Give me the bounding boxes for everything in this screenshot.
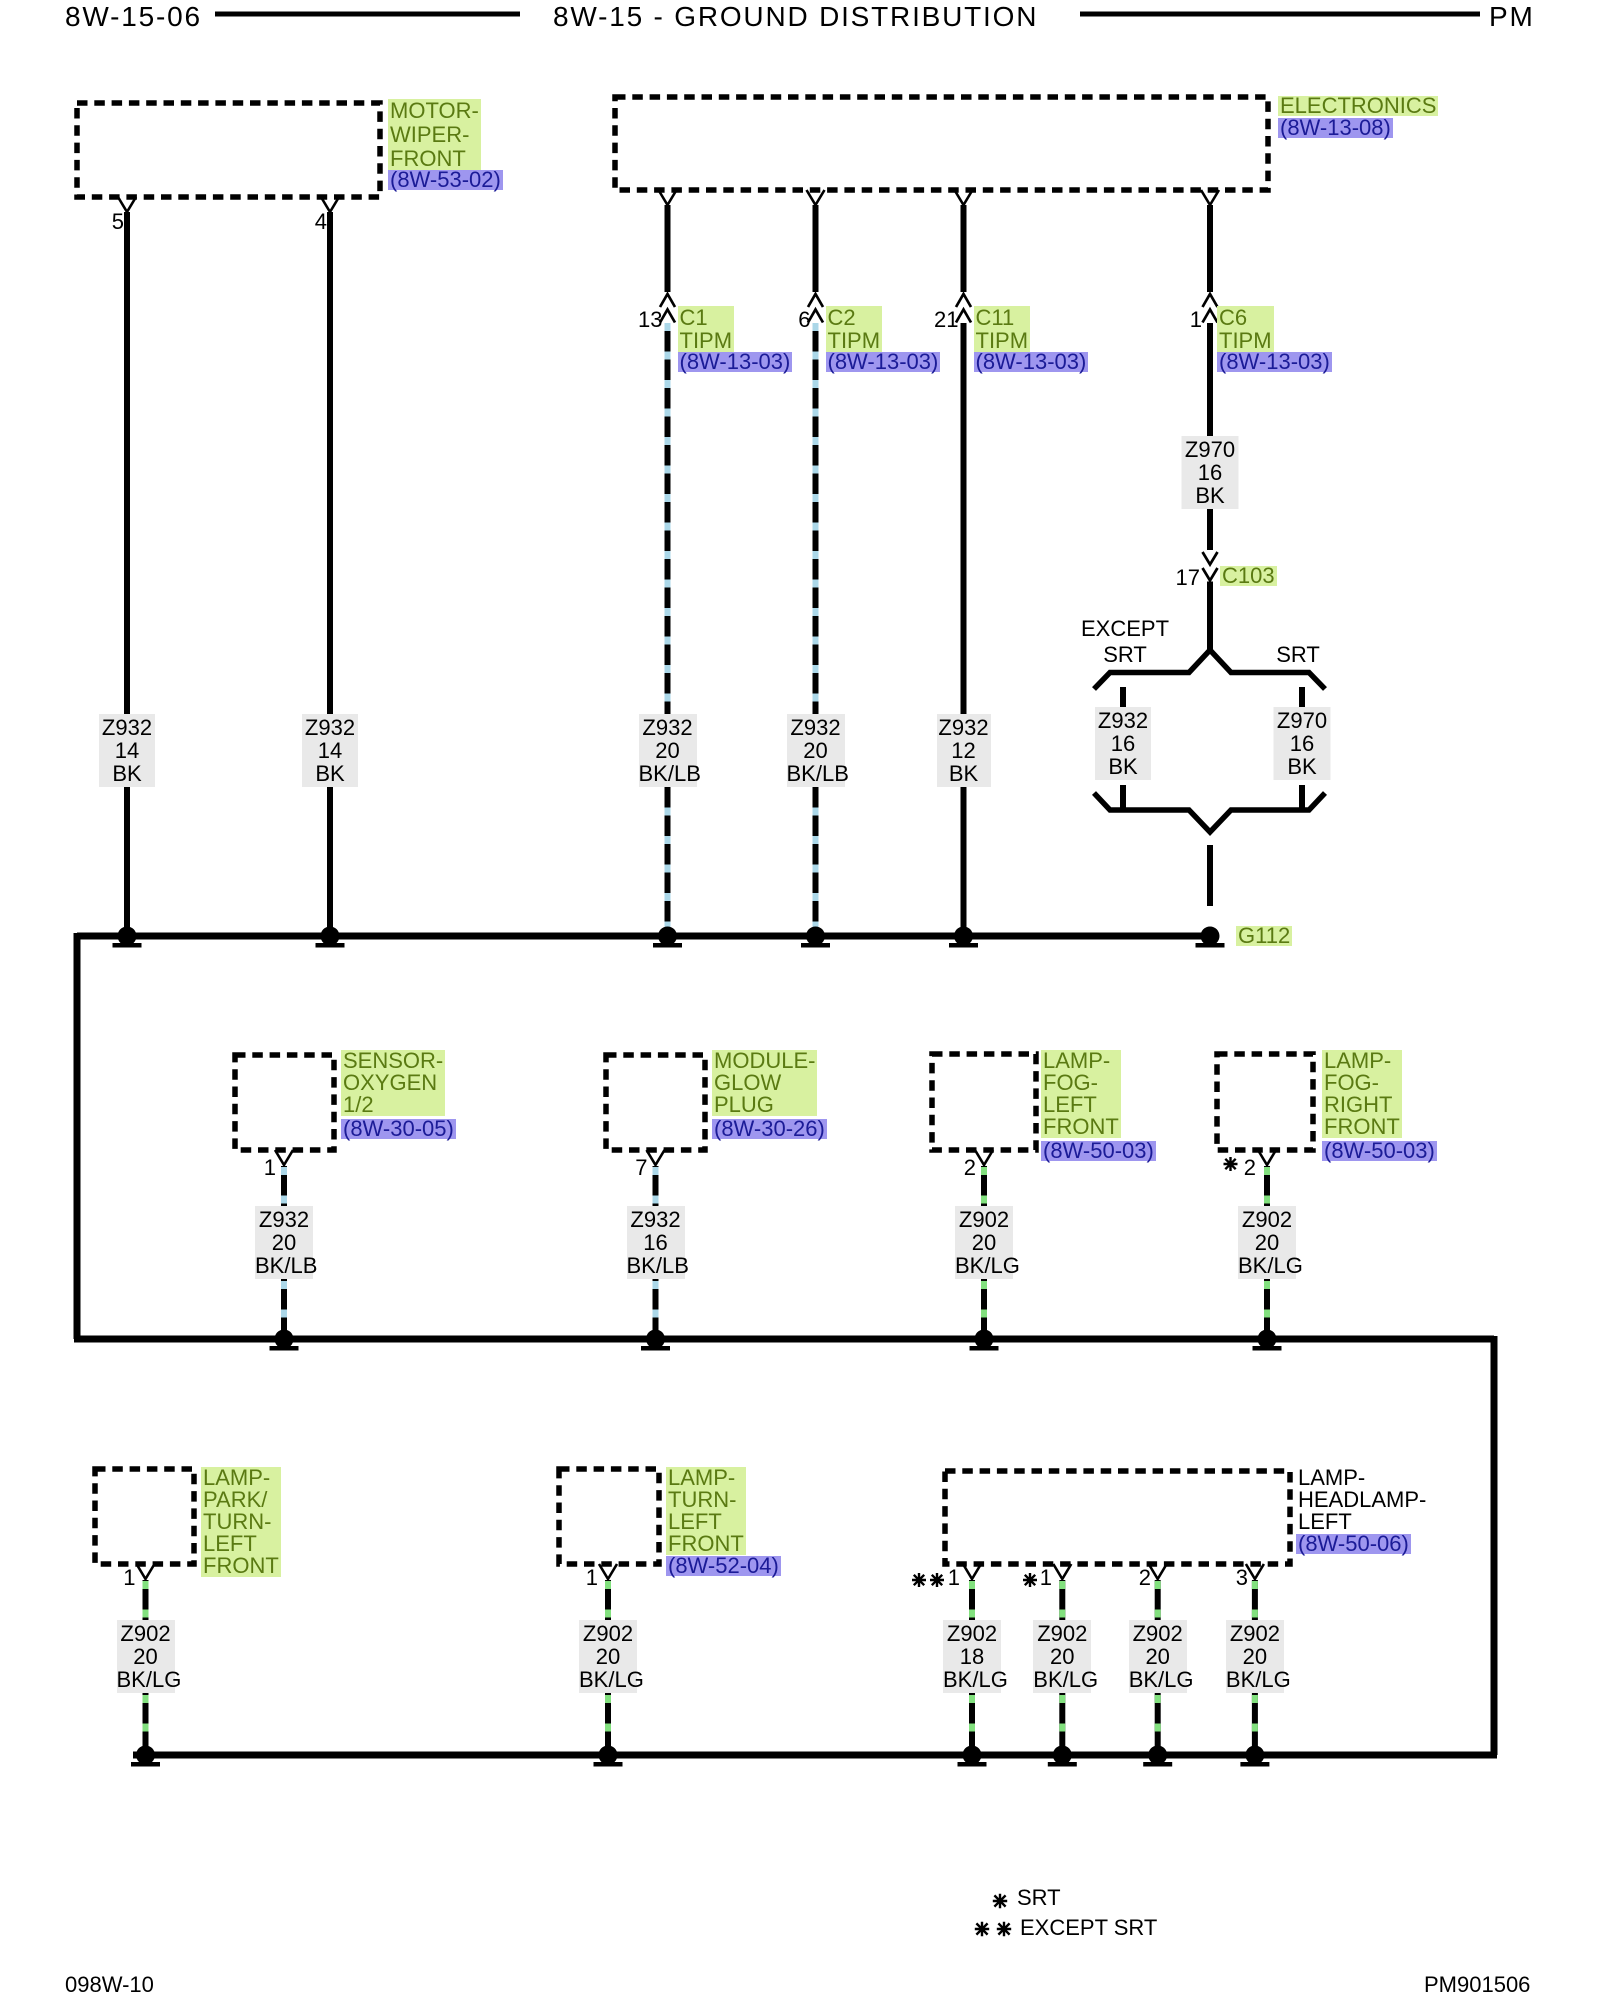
- junction dot on bus 3 at x=145.5: [131, 1746, 160, 1767]
- pin number 5: [99, 210, 124, 234]
- component box MOTOR-WIPER-FRONT: [77, 103, 380, 197]
- label SENSOR-OXYGEN 1/2: [341, 1050, 445, 1116]
- label LAMP-TURN-LEFT FRONT: [666, 1467, 746, 1555]
- label C6 TIPM: [1217, 306, 1274, 352]
- pin number 2 LAMP-FOG-RIGHT (starred): [1242, 1156, 1256, 1180]
- wire label at x=284: [255, 1206, 313, 1279]
- light-blue tracer ticks on wire C2: [813, 323, 819, 930]
- asterisk marker for pin 2 LAMP-FOG-RIGHT FRONT: [1224, 1157, 1238, 1171]
- component box LAMP-PARK/TURN-LEFT FRONT: [95, 1469, 194, 1564]
- wire Z970 16 BK from C6 to C103: [1207, 323, 1213, 550]
- pin number 17 at C103: [1166, 566, 1200, 590]
- header rule left: [215, 12, 520, 17]
- junction dot on bus 3 at x=972: [958, 1746, 987, 1767]
- light-blue tracer ticks on wire C1: [665, 323, 671, 930]
- wire label at x=655.5: [627, 1206, 685, 1279]
- tracer ticks on wire at x=972: [969, 1581, 975, 1750]
- junction dot on G112 bus at x=1210: [1196, 927, 1225, 948]
- wire from ELECTRONICS to connector C11: [961, 205, 967, 292]
- SRT option split brace (top): [1094, 650, 1325, 689]
- option label SRT: [1276, 642, 1320, 668]
- label MOTOR-WIPER-FRONT: [388, 99, 481, 171]
- component box LAMP-HEADLAMP-LEFT: [945, 1471, 1290, 1564]
- wire label at x=1267: [1238, 1206, 1296, 1279]
- junction dot on G112 bus at x=127: [113, 927, 142, 948]
- footer code PM901506: [1424, 1973, 1530, 1997]
- wire label at x=815.5: [787, 714, 845, 787]
- junction dot on bus 3 at x=1062.3: [1048, 1746, 1077, 1767]
- reference label (8W-50-03) left fog: [1041, 1141, 1156, 1161]
- junction dot on bus 2 at x=655.5: [641, 1330, 670, 1351]
- header text 8W-15-06: [65, 2, 202, 32]
- pin number 1 SENSOR-OXYGEN: [251, 1156, 276, 1180]
- pin number 6 at connector C2: [786, 308, 811, 332]
- connector V pin 5 MOTOR-WIPER-FRONT: [118, 197, 136, 212]
- reference label (8W-50-06): [1296, 1534, 1411, 1554]
- wire Z902 20 BK/LG from LAMP-HEADLAMP-LEFT pin 3 to bus 3: [1252, 1580, 1258, 1755]
- pin number 7 MODULE-GLOW PLUG: [623, 1156, 648, 1180]
- header title 8W-15 - GROUND DISTRIBUTION: [553, 2, 1038, 32]
- wire Z902 20 BK/LG from LAMP-PARK/TURN-LEFT FRONT pin 1 to bus 3: [143, 1580, 149, 1755]
- junction dot on bus 2 at x=1267: [1253, 1330, 1282, 1351]
- footnote double asterisk EXCEPT SRT: [975, 1922, 989, 1936]
- label MODULE-GLOW PLUG: [712, 1050, 817, 1116]
- tracer ticks on wire at x=145.5: [143, 1581, 149, 1750]
- tracer ticks on wire at x=1157.7: [1155, 1581, 1161, 1750]
- wire label Z932 16 BK (EXCEPT SRT branch): [1095, 707, 1151, 780]
- pin number 1 headlamp (double star): [946, 1566, 960, 1590]
- junction dot on bus 2 at x=984: [970, 1330, 999, 1351]
- connector V pin 1 LAMP-TURN-LEFT FRONT: [599, 1564, 617, 1579]
- tracer ticks on wire at x=1267: [1264, 1167, 1270, 1334]
- wire Z932 16 BK/LB from MODULE-GLOW PLUG to bus 2: [653, 1166, 659, 1339]
- label LAMP-FOG-LEFT FRONT: [1041, 1050, 1121, 1138]
- header rule right: [1080, 12, 1480, 17]
- pin number 1 at connector C6: [1177, 308, 1202, 332]
- reference label (8W-30-05): [341, 1119, 456, 1139]
- connector V pin 3 LAMP-HEADLAMP-LEFT: [1246, 1564, 1264, 1579]
- pin number 4: [302, 210, 327, 234]
- reference label (8W-13-03) at C2: [826, 352, 941, 372]
- connector V pin 7 MODULE-GLOW PLUG: [647, 1150, 665, 1165]
- component box LAMP-FOG-LEFT FRONT: [932, 1054, 1036, 1150]
- ground bus G112 (top): [77, 933, 1210, 940]
- wire label at x=1062.3: [1033, 1620, 1091, 1693]
- wire Z932 20 BK/LB from SENSOR-OXYGEN 1/2 to bus 2: [281, 1166, 287, 1339]
- reference label (8W-13-03) at C6: [1217, 352, 1332, 372]
- wire label at x=145.5: [117, 1620, 175, 1693]
- pin number 1 headlamp (star): [1038, 1566, 1052, 1590]
- wire Z902 20 BK/LG from LAMP-FOG-LEFT FRONT to bus 2: [981, 1166, 987, 1339]
- wire label Z970 16 BK (SRT branch): [1274, 707, 1331, 780]
- label C11 TIPM: [974, 306, 1031, 352]
- reference label (8W-13-03) at C1: [678, 352, 793, 372]
- pin number 13 at connector C1: [638, 308, 663, 332]
- double asterisk marker for pin 1 LAMP-HEADLAMP-LEFT: [912, 1573, 926, 1587]
- connector V pin 1 LAMP-PARK/TURN-LEFT FRONT: [137, 1564, 155, 1579]
- tracer ticks on wire at x=608: [605, 1581, 611, 1750]
- pin number 1 LAMP-TURN: [573, 1566, 598, 1590]
- reference label (8W-13-08): [1278, 118, 1393, 138]
- junction dot on G112 bus at x=815.5: [801, 927, 830, 948]
- junction dot on bus 3 at x=1254.9: [1240, 1746, 1269, 1767]
- wire Z902 18 BK/LG from LAMP-HEADLAMP-LEFT pin 1 to bus 3: [969, 1580, 975, 1755]
- wire right rail from second bus to third bus: [1491, 1336, 1498, 1755]
- junction dot on bus 3 at x=1157.7: [1143, 1746, 1172, 1767]
- wire label Z970 16 BK: [1182, 436, 1239, 509]
- component box SENSOR-OXYGEN 1/2: [235, 1055, 334, 1150]
- in-line connector C103 pin 17 (double chevron): [1203, 552, 1218, 581]
- wire label at x=127: [99, 714, 155, 787]
- wire Z932 12 BK from C11 to G112: [961, 323, 967, 936]
- connector V pin 2 LAMP-HEADLAMP-LEFT: [1149, 1564, 1167, 1579]
- wire Z932 14 BK from MOTOR-WIPER-FRONT pin 4 to G112: [327, 212, 333, 936]
- tracer ticks on wire at x=984: [981, 1167, 987, 1334]
- wire from C103 to SRT split: [1207, 582, 1213, 652]
- option label EXCEPT SRT: [1081, 616, 1169, 668]
- wire Z970 16 BK (SRT branch, dashed): [1299, 687, 1305, 809]
- footnote SRT: [1017, 1886, 1061, 1910]
- reference label (8W-50-03) right fog: [1322, 1141, 1437, 1161]
- wire label at x=1157.7: [1129, 1620, 1187, 1693]
- wire Z932 20 BK/LB from C1 to G112: [665, 323, 671, 936]
- connector V at ELECTRONICS above C2: [807, 190, 825, 205]
- footnote EXCEPT SRT: [1020, 1916, 1157, 1940]
- pin number 1 LAMP-PARK/TURN: [111, 1566, 136, 1590]
- wire Z932 20 BK/LB from C2 to G112: [813, 323, 819, 936]
- component box LAMP-TURN-LEFT FRONT: [559, 1469, 659, 1564]
- wire label at x=984: [955, 1206, 1013, 1279]
- pin number 3 headlamp: [1223, 1566, 1248, 1590]
- label ELECTRONICS: [1278, 96, 1438, 116]
- wire from ELECTRONICS to connector C6: [1207, 205, 1213, 292]
- asterisk marker for pin 1 LAMP-HEADLAMP-LEFT: [1023, 1573, 1037, 1587]
- wire Z902 20 BK/LG from LAMP-HEADLAMP-LEFT pin 2 to bus 3: [1155, 1580, 1161, 1755]
- wire from SRT merge to G112: [1207, 845, 1213, 906]
- connector V pin 2 LAMP-FOG-LEFT FRONT: [975, 1150, 993, 1165]
- junction dot on bus 3 at x=608: [594, 1746, 623, 1767]
- in-line connector C6 TIPM pin 1 (double chevron): [1203, 294, 1218, 323]
- connector label C103: [1220, 566, 1277, 586]
- wire Z902 20 BK/LG from LAMP-FOG-RIGHT FRONT to bus 2: [1264, 1166, 1270, 1339]
- wire label at x=972: [943, 1620, 1001, 1693]
- component box LAMP-FOG-RIGHT FRONT: [1217, 1054, 1313, 1150]
- connector V pin 1 SENSOR-OXYGEN 1/2: [275, 1150, 293, 1165]
- label C2 TIPM: [826, 306, 883, 352]
- in-line connector C11 TIPM pin 21 (double chevron): [956, 294, 971, 323]
- connector V pin 1 LAMP-HEADLAMP-LEFT: [1053, 1564, 1071, 1579]
- wire Z902 20 BK/LG from LAMP-TURN-LEFT FRONT pin 1 to bus 3: [605, 1580, 611, 1755]
- pin number 2 LAMP-FOG-LEFT: [951, 1156, 976, 1180]
- connector V pin 1 LAMP-HEADLAMP-LEFT: [963, 1564, 981, 1579]
- junction dot on bus 2 at x=284: [270, 1330, 299, 1351]
- wire label at x=608: [579, 1620, 637, 1693]
- connector V at ELECTRONICS above C6: [1201, 190, 1219, 205]
- wire from ELECTRONICS to connector C1: [665, 205, 671, 292]
- in-line connector C2 TIPM pin 6 (double chevron): [808, 294, 823, 323]
- tracer ticks on wire at x=1062.3: [1059, 1581, 1065, 1750]
- wire Z932 16 BK (EXCEPT SRT branch, dashed): [1120, 687, 1126, 809]
- connector V pin 4 MOTOR-WIPER-FRONT: [321, 197, 339, 212]
- in-line connector C1 TIPM pin 13 (double chevron): [660, 294, 675, 323]
- tracer ticks on wire at x=1254.9: [1252, 1581, 1258, 1750]
- wire Z902 20 BK/LG from LAMP-HEADLAMP-LEFT pin 1 to bus 3: [1059, 1580, 1065, 1755]
- wire label at x=963.5: [937, 714, 991, 787]
- connector V pin 2 LAMP-FOG-RIGHT FRONT: [1258, 1150, 1276, 1165]
- label C1 TIPM: [678, 306, 735, 352]
- pin number 21 at connector C11: [934, 308, 959, 332]
- wire label at x=1254.9: [1226, 1620, 1284, 1693]
- ground bus 3 (bottom): [133, 1752, 1497, 1759]
- wire from ELECTRONICS to connector C2: [813, 205, 819, 292]
- connector V at ELECTRONICS above C11: [955, 190, 973, 205]
- wire label at x=667.5: [639, 714, 697, 787]
- footnote asterisk SRT: [993, 1894, 1007, 1908]
- junction dot on G112 bus at x=667.5: [653, 927, 682, 948]
- label LAMP-PARK/TURN-LEFT FRONT: [201, 1467, 281, 1577]
- component box MODULE-GLOW PLUG: [606, 1055, 705, 1150]
- reference label (8W-30-26): [712, 1119, 827, 1139]
- reference label (8W-52-04): [666, 1556, 781, 1576]
- wire label at x=330: [302, 714, 358, 787]
- reference label (8W-13-03) at C11: [974, 352, 1089, 372]
- SRT option merge brace (bottom): [1094, 793, 1325, 832]
- header text PM: [1489, 2, 1535, 32]
- reference label (8W-53-02): [388, 170, 503, 190]
- component box ELECTRONICS: [615, 97, 1268, 190]
- label LAMP-FOG-RIGHT FRONT: [1322, 1050, 1402, 1138]
- label LAMP-HEADLAMP-LEFT (black): [1298, 1467, 1426, 1533]
- ground bus 2 (middle): [74, 1336, 1494, 1343]
- junction dot on G112 bus at x=330: [316, 927, 345, 948]
- wire left rail from G112 bus to second bus: [74, 933, 81, 1339]
- footer sheet number 098W-10: [65, 1973, 154, 1997]
- pin number 2 headlamp: [1126, 1566, 1151, 1590]
- ground label G112: [1236, 926, 1292, 946]
- tracer ticks on wire at x=655.5: [653, 1167, 659, 1334]
- wire Z932 14 BK from MOTOR-WIPER-FRONT pin 5 to G112: [124, 212, 130, 936]
- junction dot on G112 bus at x=963.5: [949, 927, 978, 948]
- tracer ticks on wire at x=284: [281, 1167, 287, 1334]
- connector V at ELECTRONICS above C1: [659, 190, 677, 205]
